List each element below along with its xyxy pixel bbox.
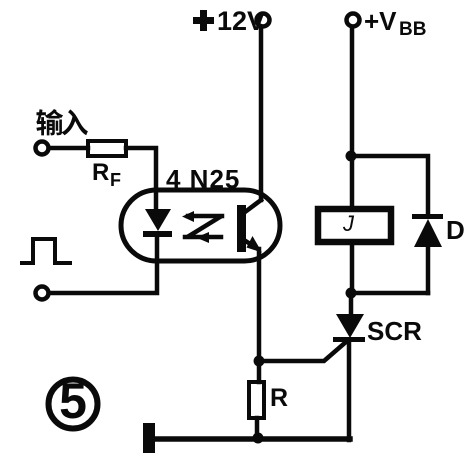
label +12V [193, 6, 265, 36]
wire junction to SCR anode [349, 293, 354, 316]
node junction VBB branch [346, 151, 357, 162]
ground bar [143, 423, 155, 453]
wire ground rail [152, 436, 350, 442]
figure number 5 [49, 373, 98, 429]
node junction relay/diode/SCR [346, 288, 357, 299]
wire relay to junction [350, 242, 355, 293]
wire emitter down to gate junction [257, 249, 262, 361]
pulse waveform symbol [22, 239, 70, 263]
SCR [333, 314, 365, 342]
terminal +12V [257, 14, 270, 27]
label input 输入 [36, 109, 88, 135]
svg-text:+V: +V [364, 6, 397, 36]
svg-text:R: R [92, 159, 109, 186]
node R bottom junction [253, 433, 264, 444]
resistor RF [88, 141, 126, 156]
optocoupler U1 body [121, 190, 280, 261]
wire RF to LED anode [126, 148, 156, 209]
terminal input top [36, 142, 49, 155]
relay coil J [318, 209, 391, 242]
wire gate junction to resistor R [257, 361, 262, 382]
svg-text:D: D [446, 215, 465, 245]
resistor R [249, 382, 264, 418]
terminal input bottom [36, 287, 49, 300]
LED inside optocoupler [143, 209, 172, 237]
wire +12V to phototransistor collector [259, 27, 264, 200]
svg-text:4 N25: 4 N25 [166, 164, 240, 194]
svg-text:R: R [270, 384, 288, 412]
wire +VBB down to relay J [350, 27, 355, 208]
svg-text:SCR: SCR [367, 316, 422, 346]
svg-text:BB: BB [399, 19, 426, 40]
wire branch to diode D [351, 156, 428, 215]
node gate junction [254, 356, 265, 367]
wire LED cathode to bottom terminal [49, 237, 157, 293]
label RF [92, 159, 121, 190]
phototransistor [237, 200, 262, 253]
wire diode to junction [351, 291, 428, 296]
svg-text:12V: 12V [217, 6, 265, 36]
wire resistor R to ground rail [255, 418, 260, 438]
svg-text:F: F [110, 170, 121, 190]
label +VBB [364, 6, 426, 40]
terminal +VBB [347, 14, 360, 27]
wire SCR gate [259, 341, 347, 361]
wire SCR cathode to ground rail [347, 342, 352, 440]
diode D [412, 214, 443, 293]
light arrows [182, 211, 222, 243]
svg-text:J: J [342, 211, 355, 236]
wire input terminal to RF [49, 146, 88, 151]
svg-text:5: 5 [59, 373, 87, 429]
